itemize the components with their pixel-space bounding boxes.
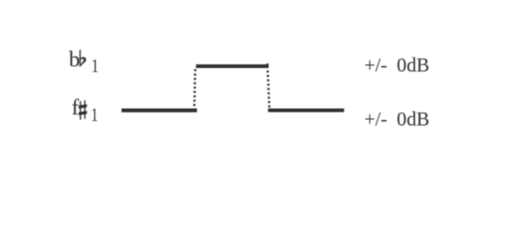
svg-text:0dB: 0dB (397, 56, 430, 77)
dotted rising transition (193, 69, 196, 108)
svg-text:+/-: +/- (364, 110, 387, 131)
svg-text:+/-: +/- (364, 56, 387, 77)
upper pitch segment at bb1 level (196, 64, 268, 68)
pitch label f-sharp-1 : sharp sign, two slanted bars (79, 104, 87, 115)
lower-left pitch segment at f#1 level (122, 109, 198, 113)
lower-right pitch segment at f#1 level (268, 108, 344, 112)
svg-text:f: f (72, 95, 80, 120)
svg-text:b: b (69, 46, 80, 71)
svg-text:1: 1 (91, 104, 98, 125)
dotted falling transition (268, 71, 270, 109)
nub where falling transition meets top segment (267, 64, 269, 69)
svg-text:1: 1 (91, 55, 98, 76)
pitch label f-sharp-1 : sharp sign, two vertical stems (80, 100, 86, 119)
pitch label b-flat-1 : flat sign (80, 50, 86, 67)
svg-text:0dB: 0dB (397, 110, 430, 131)
